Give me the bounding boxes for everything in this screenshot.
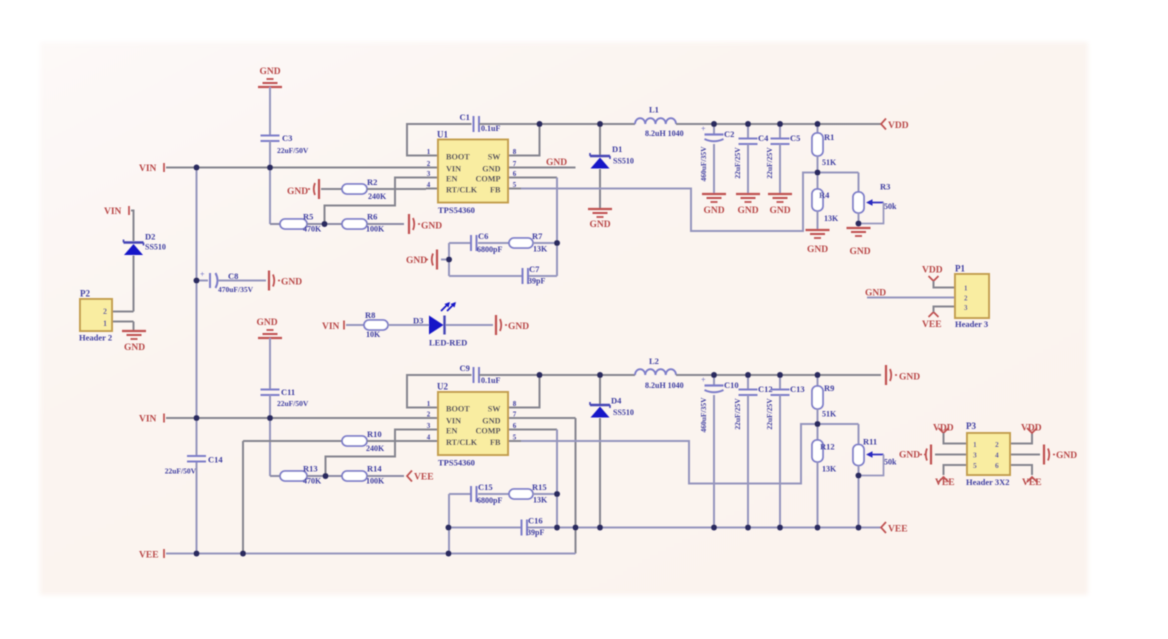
svg-text:SS510: SS510 (145, 243, 166, 252)
svg-text:GND: GND (124, 343, 145, 353)
svg-text:50k: 50k (884, 458, 897, 467)
svg-text:22uF/50V: 22uF/50V (277, 399, 309, 408)
svg-text:D4: D4 (611, 396, 622, 406)
svg-text:GND: GND (769, 206, 790, 216)
svg-text:22uF/25V: 22uF/25V (733, 398, 742, 430)
svg-text:C10: C10 (724, 380, 739, 390)
svg-text:10K: 10K (366, 330, 381, 339)
svg-text:LED-RED: LED-RED (429, 338, 467, 348)
svg-text:RT/CLK: RT/CLK (446, 438, 478, 447)
svg-text:R2: R2 (367, 177, 377, 187)
svg-text:GND: GND (256, 318, 277, 328)
svg-text:0.1uF: 0.1uF (481, 376, 500, 385)
svg-text:240K: 240K (368, 192, 387, 201)
svg-text:SW: SW (488, 153, 502, 162)
svg-text:470uF/35V: 470uF/35V (218, 285, 254, 294)
svg-text:GND: GND (482, 165, 500, 174)
svg-text:GND: GND (899, 451, 920, 461)
svg-text:U2: U2 (437, 382, 448, 392)
svg-text:R8: R8 (365, 310, 375, 320)
svg-text:C6: C6 (478, 231, 488, 241)
svg-text:R12: R12 (820, 442, 835, 452)
svg-text:470K: 470K (303, 225, 322, 234)
svg-text:50k: 50k (884, 202, 897, 211)
svg-text:GND: GND (287, 187, 308, 197)
svg-text:SS510: SS510 (613, 157, 634, 166)
svg-text:FB: FB (490, 438, 501, 447)
svg-text:4: 4 (427, 434, 431, 442)
svg-text:6: 6 (513, 422, 517, 430)
svg-text:VIN: VIN (139, 164, 157, 174)
svg-text:470K: 470K (303, 477, 322, 486)
svg-text:39pF: 39pF (528, 277, 545, 286)
svg-text:51K: 51K (822, 410, 837, 419)
svg-text:FB: FB (490, 186, 501, 195)
svg-text:SW: SW (488, 405, 502, 414)
svg-text:100K: 100K (366, 477, 385, 486)
svg-text:GND: GND (421, 222, 442, 232)
svg-text:C4: C4 (758, 133, 769, 143)
svg-text:1: 1 (427, 148, 431, 156)
svg-text:22uF/50V: 22uF/50V (277, 146, 309, 155)
svg-text:C2: C2 (724, 129, 734, 139)
svg-text:VIN: VIN (104, 207, 122, 217)
svg-text:D1: D1 (612, 144, 622, 154)
svg-text:1: 1 (103, 319, 107, 328)
svg-text:C11: C11 (281, 387, 295, 397)
svg-text:GND: GND (899, 373, 920, 383)
svg-text:GND: GND (703, 206, 724, 216)
svg-text:4: 4 (995, 451, 999, 460)
svg-text:R4: R4 (819, 190, 830, 200)
svg-text:100K: 100K (366, 225, 385, 234)
svg-text:240K: 240K (366, 444, 385, 453)
svg-text:VIN: VIN (322, 322, 340, 332)
svg-text:GND: GND (807, 245, 828, 255)
svg-text:GND: GND (737, 206, 758, 216)
svg-text:C9: C9 (460, 363, 470, 373)
svg-text:GND: GND (1056, 451, 1077, 461)
svg-text:GND: GND (482, 417, 500, 426)
svg-text:RT/CLK: RT/CLK (446, 186, 478, 195)
svg-text:Header 3X2: Header 3X2 (966, 477, 1010, 487)
svg-text:VDD: VDD (888, 121, 909, 131)
svg-text:6: 6 (995, 461, 999, 470)
svg-text:C15: C15 (478, 482, 493, 492)
svg-text:Header 2: Header 2 (79, 333, 112, 343)
svg-text:2: 2 (103, 307, 107, 316)
svg-text:22uF/25V: 22uF/25V (765, 398, 774, 430)
svg-text:R10: R10 (367, 429, 382, 439)
svg-text:3: 3 (973, 451, 977, 460)
svg-text:C1: C1 (460, 112, 470, 122)
svg-text:VIN: VIN (139, 415, 157, 425)
svg-text:1: 1 (427, 400, 431, 408)
svg-text:GND: GND (589, 220, 610, 230)
svg-text:C5: C5 (790, 133, 800, 143)
svg-text:2: 2 (427, 411, 431, 419)
svg-text:BOOT: BOOT (446, 405, 470, 414)
svg-text:SS510: SS510 (613, 408, 634, 417)
svg-text:1: 1 (964, 285, 968, 293)
svg-text:R15: R15 (532, 482, 547, 492)
svg-text:VDD: VDD (1021, 424, 1042, 434)
svg-text:6: 6 (513, 170, 517, 178)
svg-text:8.2uH 1040: 8.2uH 1040 (645, 381, 684, 390)
svg-text:13K: 13K (533, 496, 548, 505)
svg-text:13K: 13K (822, 465, 837, 474)
svg-text:GND: GND (546, 158, 567, 168)
svg-text:VDD: VDD (922, 266, 943, 276)
svg-text:0.1uF: 0.1uF (481, 124, 500, 133)
svg-text:51K: 51K (822, 158, 837, 167)
svg-text:5: 5 (513, 181, 517, 189)
svg-text:R5: R5 (303, 212, 313, 222)
svg-text:GND: GND (849, 247, 870, 257)
svg-text:+: + (701, 376, 706, 385)
svg-text:C7: C7 (529, 264, 540, 274)
svg-text:R6: R6 (367, 212, 377, 222)
svg-text:GND: GND (281, 278, 302, 288)
svg-text:C12: C12 (758, 384, 773, 394)
svg-text:R14: R14 (367, 464, 382, 474)
svg-text:P2: P2 (80, 289, 90, 299)
svg-text:3: 3 (427, 422, 431, 430)
svg-text:7: 7 (513, 411, 517, 419)
svg-text:VEE: VEE (935, 478, 955, 488)
svg-text:P3: P3 (966, 421, 976, 431)
svg-text:1: 1 (973, 440, 977, 449)
svg-text:13K: 13K (824, 214, 839, 223)
svg-text:D3: D3 (413, 316, 423, 326)
svg-text:3: 3 (427, 170, 431, 178)
svg-text:VIN: VIN (446, 165, 461, 174)
svg-text:EN: EN (446, 175, 457, 184)
svg-text:R9: R9 (824, 383, 834, 393)
svg-text:8: 8 (513, 400, 517, 408)
svg-text:5: 5 (513, 434, 517, 442)
svg-text:L2: L2 (649, 356, 659, 366)
svg-text:VDD: VDD (933, 424, 954, 434)
svg-text:BOOT: BOOT (446, 153, 470, 162)
svg-text:R11: R11 (863, 437, 877, 447)
svg-text:TPS54360: TPS54360 (438, 458, 475, 468)
svg-text:C3: C3 (282, 133, 292, 143)
svg-text:TPS54360: TPS54360 (438, 205, 475, 215)
svg-text:22uF/50V: 22uF/50V (165, 467, 197, 476)
svg-text:C13: C13 (790, 384, 805, 394)
svg-text:39pF: 39pF (527, 528, 544, 537)
svg-text:C8: C8 (228, 271, 238, 281)
svg-text:R7: R7 (532, 231, 543, 241)
svg-text:VEE: VEE (414, 473, 434, 483)
svg-text:VEE: VEE (888, 525, 908, 535)
svg-text:C16: C16 (528, 516, 543, 526)
svg-text:GND: GND (508, 322, 529, 332)
svg-text:6800pF: 6800pF (477, 496, 502, 505)
svg-text:22uF/25V: 22uF/25V (733, 147, 742, 179)
svg-text:L1: L1 (649, 105, 659, 115)
svg-text:+: + (701, 125, 706, 134)
svg-text:2: 2 (995, 440, 999, 449)
svg-text:8.2uH 1040: 8.2uH 1040 (645, 129, 684, 138)
svg-text:COMP: COMP (475, 427, 500, 436)
svg-text:Header 3: Header 3 (955, 319, 988, 329)
svg-text:+: + (200, 270, 205, 279)
svg-text:8: 8 (513, 148, 517, 156)
svg-text:R1: R1 (824, 132, 834, 142)
svg-text:2: 2 (964, 295, 968, 303)
svg-text:R13: R13 (303, 464, 318, 474)
svg-text:5: 5 (973, 461, 977, 470)
svg-text:4: 4 (427, 181, 431, 189)
svg-text:3: 3 (964, 304, 968, 312)
svg-text:P1: P1 (955, 264, 965, 274)
svg-text:13K: 13K (533, 245, 548, 254)
svg-text:VEE: VEE (139, 551, 159, 561)
svg-text:7: 7 (513, 160, 517, 168)
svg-text:GND: GND (259, 67, 280, 77)
svg-text:U1: U1 (437, 130, 448, 140)
svg-text:R3: R3 (880, 182, 890, 192)
svg-text:460uF/35V: 460uF/35V (699, 146, 708, 182)
svg-text:GND: GND (406, 256, 427, 266)
svg-text:EN: EN (446, 427, 457, 436)
svg-text:22uF/25V: 22uF/25V (765, 147, 774, 179)
svg-text:2: 2 (427, 160, 431, 168)
svg-text:VEE: VEE (1022, 478, 1042, 488)
svg-text:VEE: VEE (922, 320, 942, 330)
svg-text:C14: C14 (208, 455, 223, 465)
svg-text:COMP: COMP (475, 175, 500, 184)
svg-text:6800pF: 6800pF (477, 245, 502, 254)
svg-text:460uF/35V: 460uF/35V (699, 397, 708, 433)
svg-text:D2: D2 (145, 232, 155, 242)
svg-text:VIN: VIN (446, 417, 461, 426)
